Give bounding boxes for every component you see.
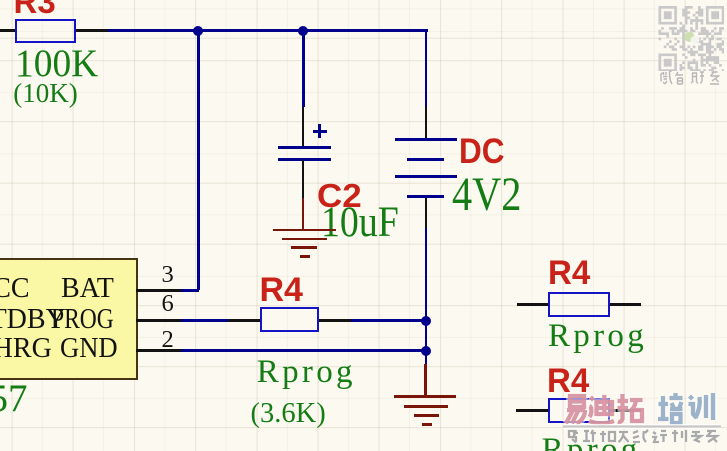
- battery DC bottom pin: [425, 198, 428, 229]
- battery plate long 1: [395, 138, 457, 141]
- wire R4 to battery net: [351, 319, 426, 322]
- QR caption 微信联系: [658, 70, 726, 86]
- label R4 right-top: [548, 256, 590, 290]
- pin number 2: [162, 328, 174, 353]
- IC U1 body: [0, 258, 138, 381]
- char 拓: [618, 394, 643, 422]
- resistor R3 left pin: [0, 29, 15, 32]
- value Rprog center: [257, 356, 356, 389]
- capacitor C2 top pin: [302, 107, 305, 148]
- junction node at rail x303: [298, 26, 308, 36]
- junction node R4 to battery net: [421, 316, 431, 326]
- QR code watermark (top right): [658, 6, 724, 71]
- capacitor C2 bottom plate: [278, 158, 331, 161]
- IC pin 2 stub: [136, 349, 181, 352]
- ground bar 1: [273, 229, 336, 232]
- ground2 bar 4: [422, 423, 432, 426]
- resistor R4 center right pin: [319, 319, 351, 322]
- IC pin name PROG: [51, 306, 114, 334]
- IC pin 6 stub: [136, 319, 181, 322]
- ground bar 3: [291, 246, 317, 249]
- resistor R4 right-top body: [548, 292, 610, 317]
- ground bar 4: [300, 255, 310, 258]
- resistor R3 body: [15, 19, 76, 43]
- pin number 3: [162, 263, 174, 288]
- wire pin2 GND net: [181, 349, 426, 352]
- char 训: [689, 393, 714, 420]
- value 4V2: [452, 171, 521, 219]
- IC pin name BAT: [61, 275, 114, 303]
- char 培: [658, 393, 683, 423]
- label C2: [317, 179, 362, 212]
- value 10uF: [321, 201, 399, 244]
- wire pin6 to R4: [181, 319, 230, 322]
- resistor R4 right-bottom left pin: [516, 409, 548, 412]
- resistor R4 right-top right pin: [610, 303, 641, 306]
- ground2 bar 2: [404, 405, 448, 408]
- battery DC top pin: [425, 107, 428, 139]
- wire vertical from rail to C2: [302, 29, 305, 107]
- IC part number 57 (cut off): [0, 379, 28, 418]
- wire vertical from rail to battery: [425, 29, 428, 107]
- watermark underline: [563, 424, 721, 429]
- wire battery bottom to junctions: [425, 228, 428, 364]
- wire top rail: [108, 29, 428, 32]
- capacitor C2 top plate: [278, 146, 331, 149]
- watermark logo+text 易迪拓培训: [560, 388, 727, 451]
- resistor R4 center body: [260, 307, 319, 332]
- battery plate short 2: [407, 195, 444, 198]
- value (10K): [13, 80, 77, 107]
- junction node at rail x198: [193, 26, 203, 36]
- label DC: [459, 134, 505, 169]
- IC pin 3 stub: [136, 289, 181, 292]
- IC pin name STDBY: [0, 306, 66, 334]
- capacitor C2 bottom pin: [302, 160, 305, 198]
- battery plate long 2: [395, 175, 457, 178]
- IC pin name VCC: [0, 275, 30, 303]
- value (3.6K): [251, 400, 326, 429]
- battery plate short 1: [407, 158, 444, 161]
- IC pin name GND: [60, 335, 118, 363]
- resistor R4 right-bottom right pin: [610, 409, 641, 412]
- label R3: [14, 0, 56, 18]
- ground GND below C2 : stem: [302, 198, 305, 231]
- label R4 right-bottom: [547, 364, 589, 398]
- resistor R3 right pin: [76, 29, 108, 32]
- watermark subtitle 射频和天线设计专家: [569, 430, 717, 443]
- ground2 bar 3: [414, 414, 439, 417]
- junction node GND net: [421, 346, 431, 356]
- value Rprog right-top: [548, 320, 647, 353]
- wire horizontal into pin 3: [181, 289, 199, 292]
- value Rprog right-bottom (cut): [542, 434, 641, 451]
- char 迪: [589, 395, 614, 423]
- ground GND below battery : stem: [424, 364, 427, 398]
- char 易: [566, 396, 585, 424]
- value 100K: [15, 44, 98, 83]
- resistor R4 right-bottom body: [548, 398, 611, 423]
- IC pin name CHRG: [0, 335, 52, 363]
- resistor R4 right-top left pin: [517, 303, 548, 306]
- wire vertical from rail to BAT pin: [197, 29, 200, 290]
- capacitor C2 plus sign: [313, 130, 327, 133]
- ground bar 2: [282, 238, 327, 241]
- pin number 6: [162, 292, 174, 317]
- label R4 center: [260, 273, 303, 307]
- ground2 bar 1: [394, 395, 456, 398]
- resistor R4 center left pin: [228, 319, 260, 322]
